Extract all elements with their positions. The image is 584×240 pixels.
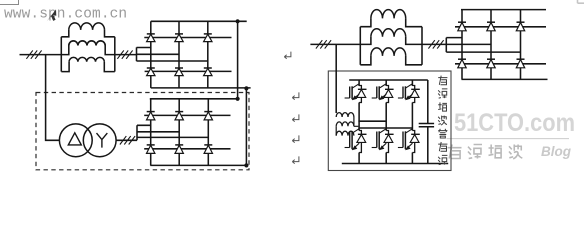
svg-text:Blog: Blog xyxy=(541,144,572,159)
svg-text:www.spn.com.cn: www.spn.com.cn xyxy=(4,7,127,23)
svg-text:51CTO.com: 51CTO.com xyxy=(454,109,575,137)
